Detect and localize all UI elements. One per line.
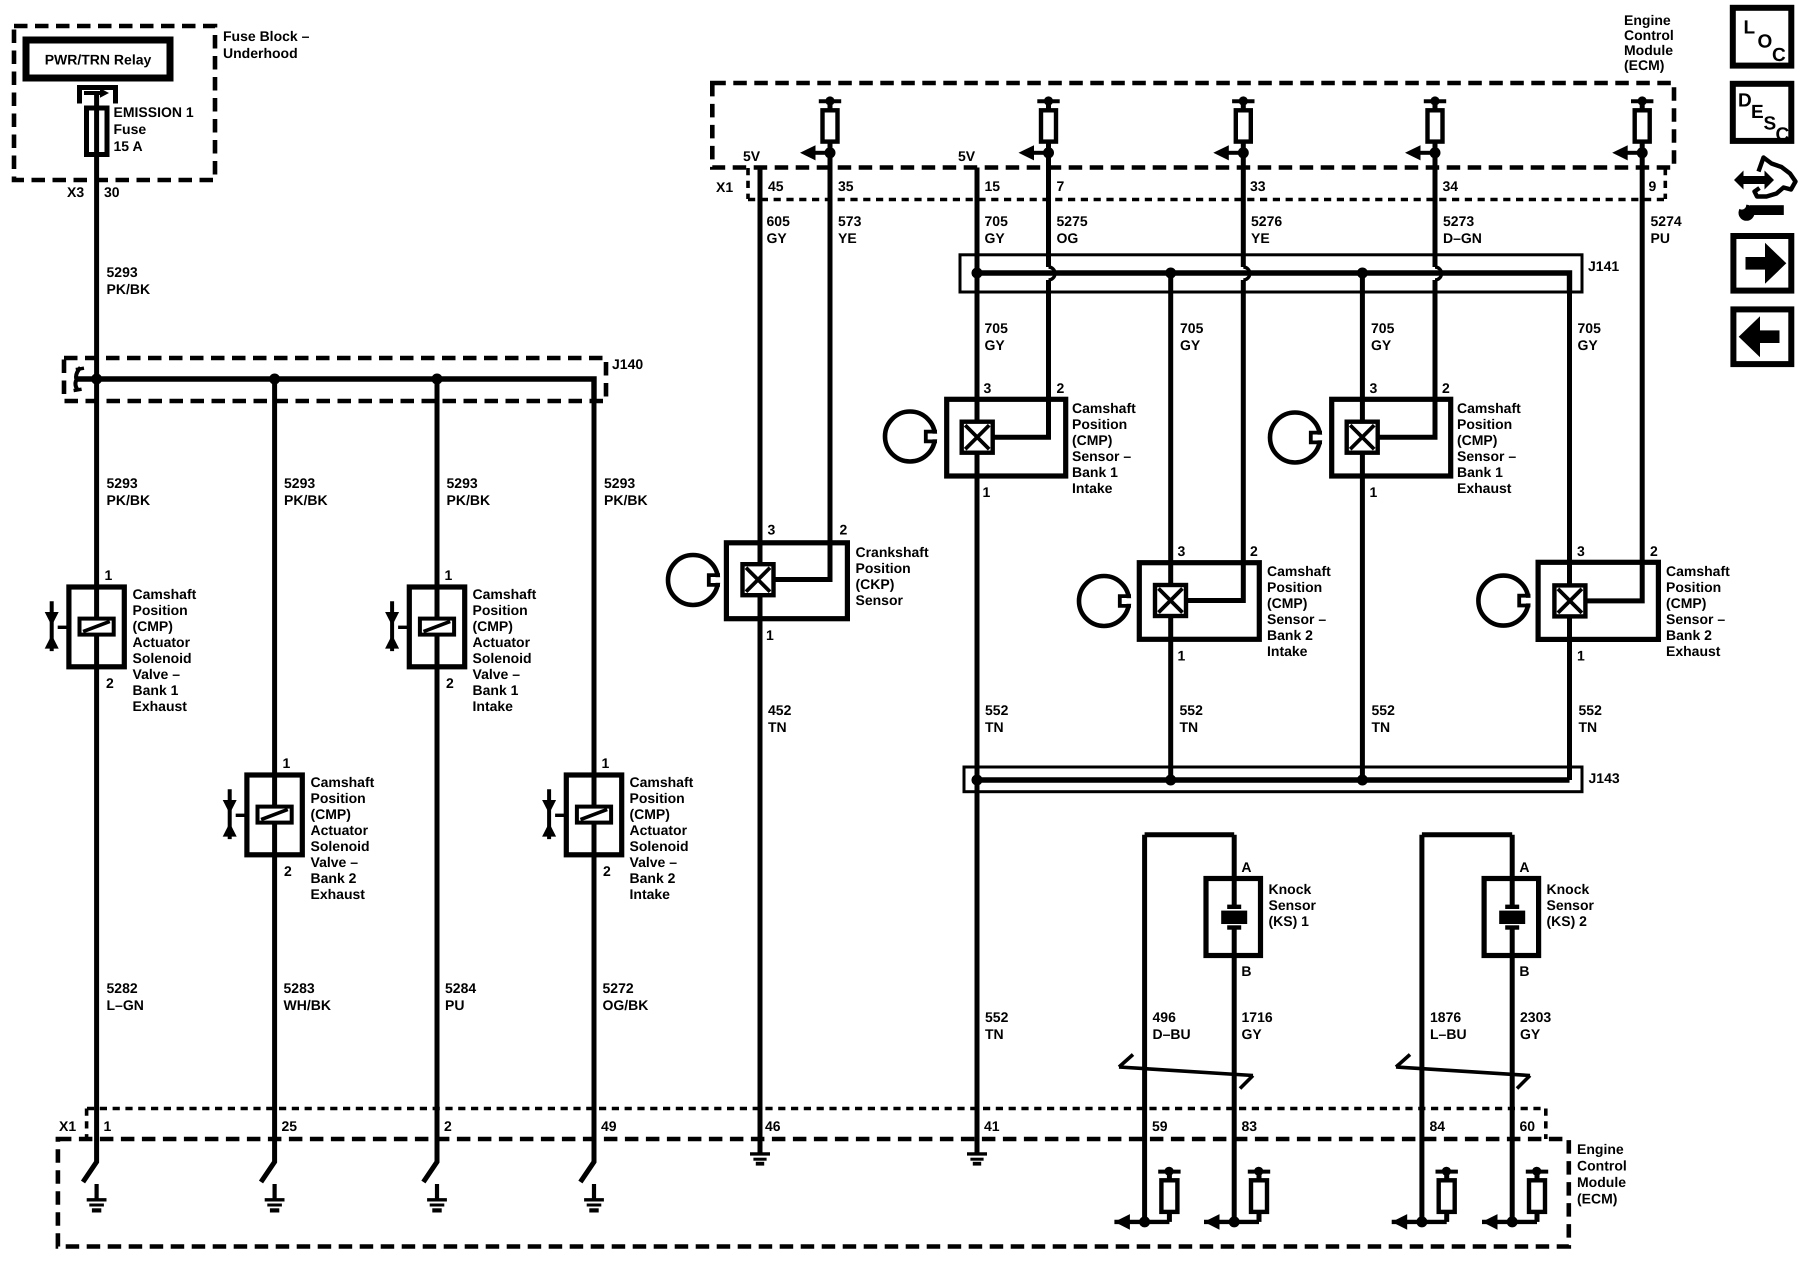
svg-text:5284: 5284 [445,980,476,996]
svg-text:Position: Position [1457,416,1512,432]
svg-text:WH/BK: WH/BK [284,997,331,1013]
svg-text:Sensor: Sensor [856,592,904,608]
X1 top right tick [1664,168,1668,199]
svg-text:E: E [1751,102,1764,123]
svg-text:573: 573 [838,213,862,229]
svg-text:(ECM): (ECM) [1577,1191,1617,1207]
wire 5273 D-GN pin34 to CMP bank1 exhaust pin2 [1378,153,1435,437]
svg-text:Valve –: Valve – [311,854,359,870]
svg-text:5283: 5283 [284,980,315,996]
svg-text:15 A: 15 A [114,138,143,154]
svg-text:D–GN: D–GN [1443,230,1482,246]
svg-text:5293: 5293 [604,475,635,491]
svg-text:J141: J141 [1588,258,1619,274]
svg-text:5282: 5282 [107,980,138,996]
svg-text:3: 3 [984,380,992,396]
svg-text:TN: TN [768,719,787,735]
svg-text:2: 2 [840,522,848,538]
svg-text:5V: 5V [958,148,976,164]
connector X1 top dashed line [748,198,1666,202]
svg-text:25: 25 [282,1118,298,1134]
svg-text:3: 3 [1577,543,1585,559]
icon double arrow hand wrench [1733,158,1796,221]
svg-text:(CMP): (CMP) [630,806,670,822]
wire relay to fuse [94,93,99,110]
svg-text:5273: 5273 [1443,213,1474,229]
svg-text:1: 1 [105,567,113,583]
svg-text:1: 1 [445,567,453,583]
svg-text:1: 1 [983,484,991,500]
svg-text:GY: GY [1371,337,1392,353]
svg-text:1: 1 [1370,484,1378,500]
svg-text:YE: YE [1251,230,1270,246]
svg-text:(CMP): (CMP) [473,618,513,634]
svg-text:2: 2 [446,675,454,691]
resistor ECM pin60 [1482,1167,1548,1230]
svg-text:Exhaust: Exhaust [1457,480,1512,496]
svg-text:705: 705 [1371,320,1395,336]
svg-text:7: 7 [1057,178,1065,194]
junction dot J141 705GY [972,268,983,279]
svg-text:2: 2 [1442,380,1450,396]
svg-text:A: A [1519,859,1529,875]
wire J140 to solenoid bank1 intake [435,379,440,587]
svg-text:Intake: Intake [473,698,514,714]
wire solenoid bank2 exhaust to ECM pin25 [261,855,275,1182]
wire 573 YE pin35 to CKP pin2 [773,153,830,580]
svg-text:5V: 5V [743,148,761,164]
svg-text:Sensor: Sensor [1269,897,1317,913]
wire 552 TN bank1 intake pin1 to J143 and ECM pin41 [975,476,980,1153]
sensor CMP bank1 intake [885,399,1066,476]
svg-text:Bank 2: Bank 2 [1267,627,1313,643]
svg-text:Bank 1: Bank 1 [473,682,519,698]
J143 bus wire [972,777,1570,782]
svg-text:Sensor –: Sensor – [1072,448,1131,464]
svg-text:1: 1 [1577,648,1585,664]
svg-text:605: 605 [767,213,791,229]
svg-text:46: 46 [765,1118,781,1134]
svg-text:552: 552 [1579,702,1603,718]
svg-text:PK/BK: PK/BK [604,492,648,508]
svg-text:2: 2 [106,675,114,691]
resistor ECM pin83 [1204,1167,1270,1230]
svg-text:Exhaust: Exhaust [133,698,188,714]
svg-text:Exhaust: Exhaust [311,886,366,902]
splice J140 dashed box [64,358,606,401]
svg-text:1: 1 [283,755,291,771]
ECM top dashed box [712,83,1674,168]
J140 bus wire [76,379,594,401]
ground ECM pin25 [265,1184,285,1213]
svg-text:Knock: Knock [1269,881,1312,897]
svg-text:83: 83 [1242,1118,1258,1134]
svg-text:Position: Position [630,790,685,806]
J141 bus wire [972,273,1570,292]
svg-text:GY: GY [985,230,1006,246]
svg-text:Camshaft: Camshaft [1457,400,1521,416]
solenoid CMP actuator valve bank1 intake [385,587,465,667]
svg-text:5293: 5293 [447,475,478,491]
junction dot J143 552TN [972,775,983,786]
resistor ECM pin59 [1114,1167,1180,1230]
svg-text:Position: Position [133,602,188,618]
svg-text:PK/BK: PK/BK [284,492,328,508]
wire 552 TN bank1 exhaust pin1 to J143 [1360,476,1365,780]
svg-text:Fuse: Fuse [114,121,147,137]
svg-text:Solenoid: Solenoid [473,650,532,666]
svg-text:Valve –: Valve – [630,854,678,870]
svg-text:(CKP): (CKP) [856,576,895,592]
svg-text:(ECM): (ECM) [1624,57,1664,73]
svg-text:552: 552 [985,1009,1009,1025]
svg-text:PK/BK: PK/BK [107,492,151,508]
svg-text:Bank 1: Bank 1 [1072,464,1118,480]
resistor ECM pin34 [1405,96,1446,160]
svg-text:TN: TN [1579,719,1598,735]
svg-text:45: 45 [768,178,784,194]
svg-text:59: 59 [1152,1118,1168,1134]
svg-text:Engine: Engine [1577,1141,1624,1157]
wire 5276 YE pin33 to CMP bank2 intake pin2 [1186,153,1243,601]
wire 5274 PU pin9 to CMP bank2 exhaust pin2 [1586,153,1642,601]
wire J141 to CMP bank1 exhaust pin3 [1360,273,1365,422]
junction dot J141 bank1 exhaust tap [1357,268,1368,279]
svg-text:(CMP): (CMP) [1457,432,1497,448]
svg-text:Intake: Intake [1267,643,1308,659]
wire solenoid bank2 intake to ECM pin49 [580,855,594,1182]
svg-text:705: 705 [1578,320,1602,336]
svg-text:Control: Control [1577,1158,1627,1174]
svg-text:2: 2 [1250,543,1258,559]
svg-text:X3: X3 [67,184,84,200]
svg-text:C: C [1772,45,1786,66]
sensor CMP bank1 exhaust [1270,399,1451,476]
svg-text:5293: 5293 [107,475,138,491]
svg-text:5293: 5293 [107,264,138,280]
svg-text:D–BU: D–BU [1153,1026,1191,1042]
resistor ECM pin33 [1213,96,1254,160]
svg-text:705: 705 [1180,320,1204,336]
svg-text:Camshaft: Camshaft [630,774,694,790]
CKP internal wires [758,543,763,619]
svg-text:2: 2 [1057,380,1065,396]
svg-text:5276: 5276 [1251,213,1282,229]
svg-text:GY: GY [985,337,1006,353]
hop 5275 over J141 [1049,267,1056,280]
svg-text:D: D [1738,91,1752,112]
svg-text:552: 552 [1372,702,1396,718]
ground ECM pin2 [427,1184,447,1213]
junction dot J140 wire1 [91,374,102,385]
svg-text:Actuator: Actuator [311,822,369,838]
wire 452 TN CKP pin1 to ECM pin46 [758,619,763,1153]
svg-text:Actuator: Actuator [630,822,688,838]
svg-text:9: 9 [1649,178,1657,194]
svg-text:Sensor –: Sensor – [1666,611,1725,627]
svg-text:Valve –: Valve – [133,666,181,682]
svg-text:GY: GY [1180,337,1201,353]
svg-text:Camshaft: Camshaft [133,586,197,602]
svg-text:Control: Control [1624,27,1674,43]
svg-text:Bank 2: Bank 2 [630,870,676,886]
svg-text:GY: GY [1578,337,1599,353]
wire J141 to CMP bank2 intake pin3 [1168,273,1173,585]
CMP bank1 exhaust internal wires [1360,453,1365,476]
icon DESC box [1733,84,1792,146]
svg-text:1: 1 [602,755,610,771]
svg-text:O: O [1758,32,1773,53]
svg-text:3: 3 [768,522,776,538]
svg-text:Position: Position [473,602,528,618]
connector X1 bottom dashed line [87,1107,1546,1111]
fuse EMISSION 1 15A [87,108,108,155]
relay PWR/TRN Relay [26,40,170,78]
svg-text:Camshaft: Camshaft [1072,400,1136,416]
svg-text:(KS) 2: (KS) 2 [1547,913,1588,929]
solenoid CMP actuator valve bank2 exhaust [223,775,303,855]
svg-text:Position: Position [1267,579,1322,595]
svg-text:GY: GY [767,230,788,246]
svg-text:(KS) 1: (KS) 1 [1269,913,1310,929]
svg-text:Bank 2: Bank 2 [311,870,357,886]
svg-text:Solenoid: Solenoid [311,838,370,854]
svg-text:X1: X1 [59,1118,76,1134]
svg-text:Intake: Intake [630,886,671,902]
ground ECM pin46 [750,1154,770,1166]
svg-text:Bank 2: Bank 2 [1666,627,1712,643]
svg-text:496: 496 [1153,1009,1177,1025]
svg-text:30: 30 [104,184,120,200]
splice J141 box [960,255,1582,292]
svg-text:Camshaft: Camshaft [473,586,537,602]
svg-text:Position: Position [311,790,366,806]
wire 552 TN bank2 intake pin1 to J143 [1168,639,1173,780]
svg-text:B: B [1519,963,1529,979]
svg-text:705: 705 [985,320,1009,336]
relay contact symbol [80,85,116,104]
resistor ECM pin9 [1612,96,1653,160]
icon arrow right box [1733,236,1791,291]
CMP bank2 exhaust internal wires [1567,617,1572,639]
svg-text:1: 1 [1178,648,1186,664]
svg-text:Actuator: Actuator [473,634,531,650]
svg-text:Sensor: Sensor [1547,897,1595,913]
svg-text:GY: GY [1520,1026,1541,1042]
svg-text:J143: J143 [1589,770,1620,786]
svg-text:OG/BK: OG/BK [603,997,649,1013]
svg-text:PU: PU [1651,230,1670,246]
svg-text:452: 452 [768,702,792,718]
svg-text:Camshaft: Camshaft [1267,563,1331,579]
fuse block underhood dashed box [14,26,215,180]
twisted pair KS2 [1396,1055,1530,1089]
svg-text:34: 34 [1443,178,1459,194]
svg-text:L–BU: L–BU [1430,1026,1467,1042]
X1 bottom right tick [1544,1109,1548,1140]
resistor ECM pin7 [1019,96,1060,160]
svg-text:Sensor –: Sensor – [1457,448,1516,464]
svg-text:1876: 1876 [1430,1009,1461,1025]
resistor ECM pin84 [1392,1167,1458,1230]
svg-text:Position: Position [1072,416,1127,432]
solenoid CMP actuator valve bank1 exhaust [45,587,125,667]
svg-text:L: L [1744,18,1756,39]
svg-text:C: C [1776,125,1790,146]
wire J140 to solenoid bank2 exhaust [272,379,277,775]
svg-text:3: 3 [1370,380,1378,396]
resistor ECM pin35 [800,96,841,160]
svg-text:TN: TN [1180,719,1199,735]
svg-text:41: 41 [984,1118,1000,1134]
wire 605 GY pin45 to CKP pin3 [758,168,763,564]
svg-text:TN: TN [985,1026,1004,1042]
svg-text:49: 49 [601,1118,617,1134]
svg-text:EMISSION 1: EMISSION 1 [114,104,194,120]
svg-text:A: A [1241,859,1251,875]
svg-text:552: 552 [1180,702,1204,718]
wire 552 TN bank2 exhaust pin1 to J143 bend [1567,639,1572,780]
svg-text:S: S [1764,114,1777,135]
wire J141 right bend to CMP bank2 exhaust pin3 [1567,292,1572,585]
svg-text:2: 2 [603,863,611,879]
svg-text:1: 1 [104,1118,112,1134]
ground ECM pin41 [967,1154,987,1166]
svg-text:Sensor –: Sensor – [1267,611,1326,627]
svg-text:Module: Module [1624,42,1673,58]
junction dot J143 bank1 exhaust [1357,775,1368,786]
svg-text:Knock: Knock [1547,881,1590,897]
svg-text:PK/BK: PK/BK [447,492,491,508]
svg-text:35: 35 [838,178,854,194]
svg-text:5274: 5274 [1651,213,1682,229]
svg-text:552: 552 [985,702,1009,718]
svg-text:YE: YE [838,230,857,246]
svg-text:1716: 1716 [1242,1009,1273,1025]
svg-text:15: 15 [985,178,1001,194]
svg-text:PK/BK: PK/BK [107,281,151,297]
sensor CMP bank2 intake [1079,563,1259,640]
svg-text:60: 60 [1520,1118,1536,1134]
knock sensor KS1 [1145,835,1261,1222]
svg-text:Module: Module [1577,1174,1626,1190]
svg-text:PWR/TRN Relay: PWR/TRN Relay [45,52,152,68]
svg-text:J140: J140 [612,356,643,372]
splice J143 box [964,767,1582,792]
X1 bottom left tick [85,1109,89,1140]
svg-text:(CMP): (CMP) [1666,595,1706,611]
svg-text:Underhood: Underhood [223,45,298,61]
svg-text:PU: PU [445,997,464,1013]
wire J140 to solenoid bank2 intake [592,401,597,775]
sensor CKP crankshaft position [668,543,847,619]
svg-text:Solenoid: Solenoid [133,650,192,666]
svg-text:5272: 5272 [603,980,634,996]
twisted pair KS1 [1119,1055,1253,1089]
svg-text:Intake: Intake [1072,480,1113,496]
wire 705 GY pin15 to CMP bank1 intake pin3 [975,168,980,422]
X1 top left tick [746,168,750,199]
wire 5293 PK/BK from fuse to J140 and solenoid bank1 exhaust [94,154,99,587]
junction dot J141 bank2 intake tap [1165,268,1176,279]
svg-text:Fuse Block –: Fuse Block – [223,28,310,44]
sensor CMP bank2 exhaust [1478,562,1658,639]
svg-text:Exhaust: Exhaust [1666,643,1721,659]
hop 5276 over J141 [1243,267,1250,280]
icon LOC box [1733,8,1792,66]
svg-text:(CMP): (CMP) [1072,432,1112,448]
svg-text:Solenoid: Solenoid [630,838,689,854]
ECM bottom dashed box [58,1139,1569,1247]
svg-text:3: 3 [1178,543,1186,559]
svg-text:(CMP): (CMP) [1267,595,1307,611]
svg-text:84: 84 [1430,1118,1446,1134]
ground ECM pin49 [584,1184,604,1213]
wire solenoid bank1 intake to ECM pin2 [423,667,437,1182]
svg-text:L–GN: L–GN [107,997,144,1013]
wire 5275 OG pin7 to CMP bank1 intake pin2 [993,153,1049,437]
svg-text:Camshaft: Camshaft [311,774,375,790]
svg-text:2: 2 [284,863,292,879]
icon arrow left box [1733,309,1791,364]
svg-text:Bank 1: Bank 1 [1457,464,1503,480]
hop 5273 over J141 [1435,267,1442,280]
junction dot J140 wire3 [432,374,443,385]
svg-text:1: 1 [766,627,774,643]
svg-text:Actuator: Actuator [133,634,191,650]
CMP bank1 intake internal wires [975,399,980,476]
svg-text:Position: Position [1666,579,1721,595]
svg-text:OG: OG [1057,230,1079,246]
svg-text:Valve –: Valve – [473,666,521,682]
svg-text:5275: 5275 [1057,213,1088,229]
svg-text:GY: GY [1242,1026,1263,1042]
svg-text:5293: 5293 [284,475,315,491]
svg-text:TN: TN [985,719,1004,735]
CMP bank2 intake internal wires [1168,616,1173,639]
knock sensor KS2 [1422,835,1539,1222]
J140 left hook [76,368,81,391]
svg-text:Position: Position [856,560,911,576]
junction dot J140 wire2 [269,374,280,385]
svg-text:Bank 1: Bank 1 [133,682,179,698]
wire solenoid bank1 exhaust to ECM pin1 [83,667,97,1182]
solenoid CMP actuator valve bank2 intake [542,775,622,855]
svg-text:TN: TN [1372,719,1391,735]
svg-text:Crankshaft: Crankshaft [856,544,929,560]
junction dot J143 bank2 intake [1165,775,1176,786]
svg-text:(CMP): (CMP) [133,618,173,634]
svg-text:(CMP): (CMP) [311,806,351,822]
svg-text:33: 33 [1250,178,1266,194]
svg-text:2: 2 [444,1118,452,1134]
svg-text:705: 705 [985,213,1009,229]
svg-text:Engine: Engine [1624,12,1671,28]
ground ECM pin1 [87,1184,107,1213]
svg-text:B: B [1241,963,1251,979]
svg-text:2303: 2303 [1520,1009,1551,1025]
svg-text:2: 2 [1650,543,1658,559]
svg-text:Camshaft: Camshaft [1666,563,1730,579]
svg-text:X1: X1 [716,179,733,195]
